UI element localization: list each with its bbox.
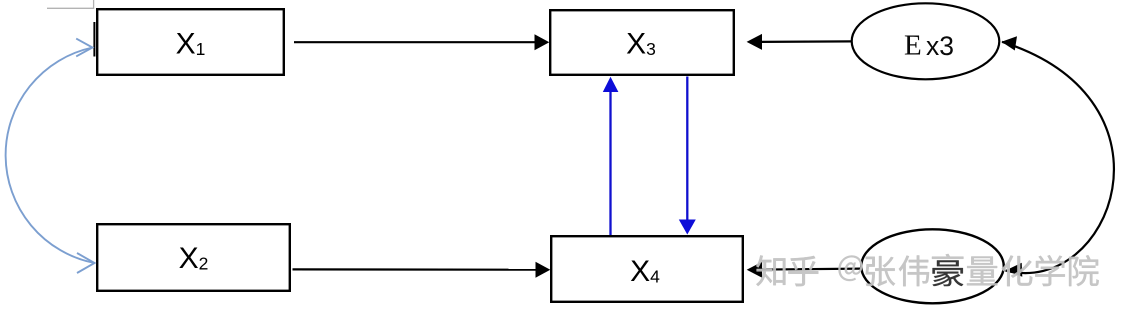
arrow Ex4 to X4	[761, 269, 862, 270]
svg-text:x3: x3	[926, 31, 954, 61]
box X2	[97, 224, 290, 291]
arrow Ex3 to X3	[761, 40, 852, 43]
svg-text:E: E	[904, 30, 922, 62]
ellipse Ex3	[852, 3, 1000, 79]
blue arrow X3 to X4 (down)	[686, 77, 688, 221]
arc arrowhead bottom	[77, 253, 95, 273]
tick mark left of X1	[93, 22, 95, 57]
arc arrowhead top	[1002, 36, 1018, 50]
box X1	[97, 9, 284, 75]
box X4	[551, 236, 743, 302]
arrow X2 to X4	[293, 268, 538, 271]
blue arrow X4 to X3 (up)	[609, 91, 611, 236]
arc arrowhead top	[76, 39, 92, 57]
faint gray frame corner	[47, 0, 94, 8]
arrow X1 to X3	[294, 41, 536, 43]
dark hao overlay	[932, 254, 963, 287]
box X3	[550, 10, 734, 75]
ellipse Ex4	[861, 229, 1004, 303]
watermark 知乎 @张伟豪量化学院	[756, 254, 1098, 287]
covariance arc X1-X2 (light blue)	[6, 48, 95, 264]
covariance arc Ex3-Ex4 (black)	[1002, 42, 1114, 273]
arc arrowhead bottom	[1006, 263, 1023, 277]
